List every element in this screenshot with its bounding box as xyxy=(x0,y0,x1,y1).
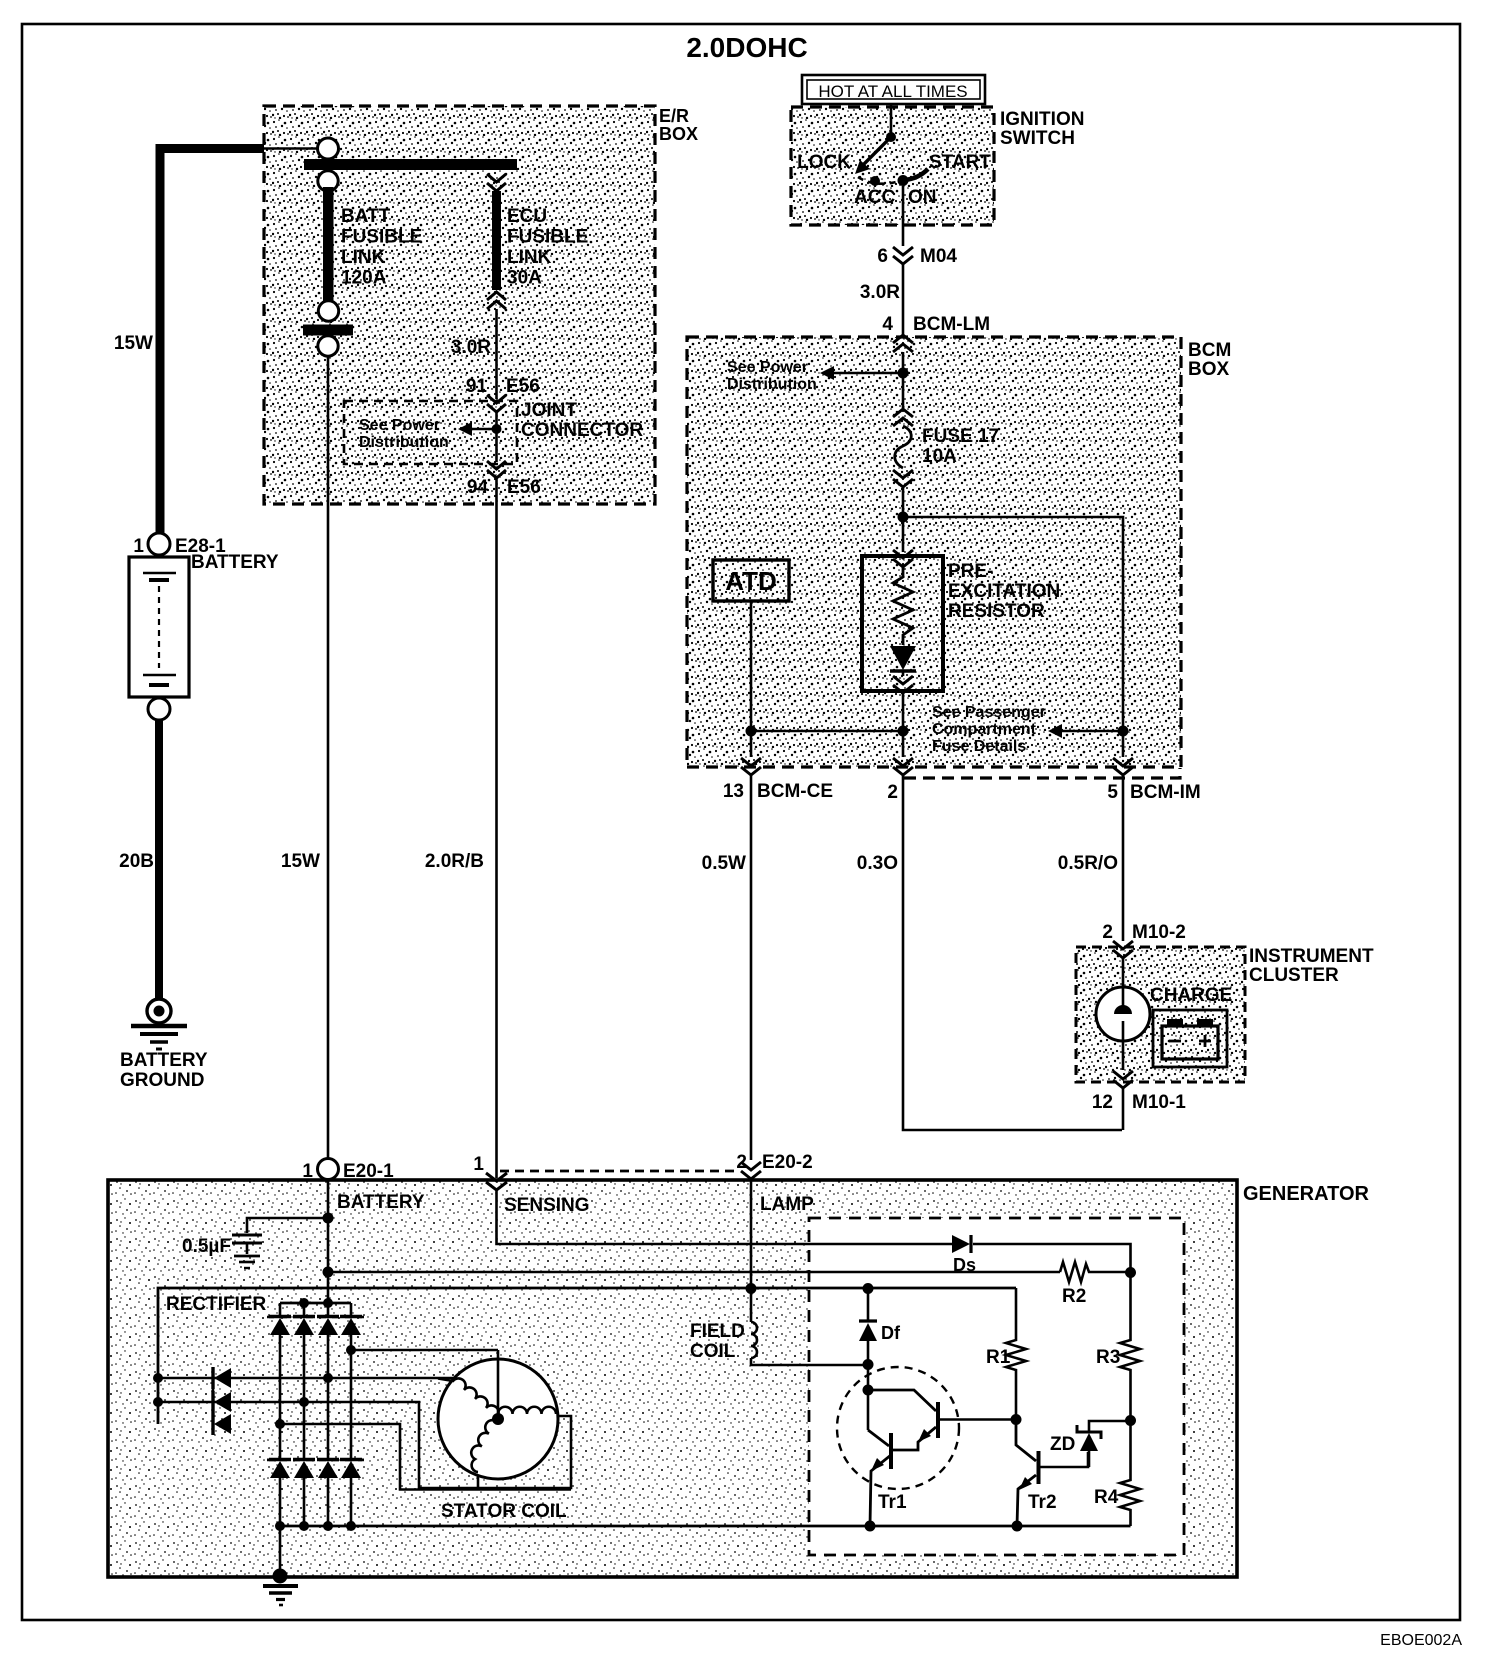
svg-text:91: 91 xyxy=(466,376,488,397)
svg-text:13: 13 xyxy=(723,781,744,802)
svg-text:94: 94 xyxy=(467,477,489,498)
terminal circle below BATT link xyxy=(318,301,338,321)
junction node (power dist tap) xyxy=(898,368,909,379)
ACC label xyxy=(854,187,895,208)
connector chevron above fuse xyxy=(893,409,913,426)
phase C line to stator winding 3 xyxy=(280,1424,571,1490)
wire label 15W (middle) xyxy=(281,851,320,872)
svg-text:R1: R1 xyxy=(986,1347,1011,1368)
wire 20B battery to ground (thick) xyxy=(155,720,163,999)
ON contact node xyxy=(898,175,909,186)
svg-text:BOX: BOX xyxy=(1188,359,1230,380)
pin labels 13 BCM-CE / 2 / 5 BCM-IM xyxy=(723,781,1201,803)
dashed travel arc LOCK-ACC-ON xyxy=(858,177,900,184)
LOCK label xyxy=(797,152,851,173)
Df label xyxy=(881,1323,901,1343)
FUSE 17 10A label xyxy=(922,426,999,467)
svg-text:2: 2 xyxy=(887,782,898,803)
HOT AT ALL TIMES box xyxy=(802,75,985,104)
diode trio D3 (phase C) xyxy=(213,1413,231,1435)
junction node Df column on bus xyxy=(863,1283,874,1294)
R3 label xyxy=(1096,1347,1120,1368)
svg-text:GENERATOR: GENERATOR xyxy=(1243,1183,1369,1205)
field coil xyxy=(751,1288,868,1365)
svg-text:12: 12 xyxy=(1092,1092,1113,1113)
svg-text:FUSE 17: FUSE 17 xyxy=(922,426,999,447)
BATT fusible link label xyxy=(341,206,422,289)
connector chevron pin 91 xyxy=(487,395,506,412)
svg-text:LOCK: LOCK xyxy=(797,152,851,173)
svg-text:START: START xyxy=(929,152,991,173)
svg-text:SENSING: SENSING xyxy=(504,1195,590,1216)
svg-text:BATTERY: BATTERY xyxy=(191,552,279,573)
resistor R2 xyxy=(1060,1262,1130,1282)
wire 15W down from E/R box to generator E20-1 xyxy=(327,357,330,1159)
wire M10-1 return down to corner xyxy=(1122,1088,1125,1130)
charge lamp symbol xyxy=(1096,987,1150,1041)
terminal circle below bus bar xyxy=(318,171,338,191)
stator centre node xyxy=(492,1413,504,1425)
BATTERY terminal label xyxy=(337,1192,425,1213)
svg-text:STATOR COIL: STATOR COIL xyxy=(441,1501,567,1522)
svg-text:Fuse Details: Fuse Details xyxy=(932,738,1026,755)
rectifier top diode bar (dashed tie) xyxy=(267,1316,364,1319)
svg-text:See Power: See Power xyxy=(359,417,440,434)
arrow to power distribution (E/R) xyxy=(458,422,497,436)
svg-text:Distribution: Distribution xyxy=(359,434,449,451)
generator box (shaded) xyxy=(108,1180,1237,1577)
joint connector label xyxy=(521,400,643,441)
ZD label xyxy=(1050,1434,1075,1455)
svg-text:M04: M04 xyxy=(920,246,957,267)
junction node R3/R4/ZD xyxy=(1125,1415,1136,1426)
wire 3.0R from M04 to BCM-LM xyxy=(902,264,905,334)
wire resistor box to pin 2 xyxy=(902,693,905,757)
resistor R3 xyxy=(1120,1272,1140,1420)
wire label 0.3O xyxy=(857,853,898,874)
svg-text:3.0R: 3.0R xyxy=(451,337,491,358)
svg-text:10A: 10A xyxy=(922,446,957,467)
terminal circle 1 E20-1 (battery terminal) xyxy=(318,1159,339,1180)
LAMP terminal label xyxy=(760,1194,814,1215)
ON label xyxy=(908,187,937,208)
rectifier bottom diode bar (dashed tie) xyxy=(267,1459,364,1462)
junction node Tr1 base feed xyxy=(863,1385,874,1396)
connector chevron 13 BCM-CE xyxy=(741,758,761,775)
generator label xyxy=(1243,1183,1369,1205)
svg-text:CONNECTOR: CONNECTOR xyxy=(521,420,643,441)
pin 91 E56 label xyxy=(466,376,540,397)
junction node in joint connector xyxy=(492,424,502,434)
RECTIFIER label xyxy=(166,1294,267,1315)
diode trio D2 (phase B) xyxy=(213,1391,231,1413)
svg-text:COIL: COIL xyxy=(690,1341,736,1362)
diode trio D1 (phase A) xyxy=(213,1367,231,1389)
stator winding 3 (lower left) xyxy=(471,1420,496,1472)
transistor Tr2 xyxy=(1016,1420,1088,1527)
svg-text:120A: 120A xyxy=(341,268,387,289)
svg-text:Tr2: Tr2 xyxy=(1028,1492,1057,1513)
svg-text:RESISTOR: RESISTOR xyxy=(948,601,1045,622)
wire label 3.0R xyxy=(860,282,900,303)
wire label 3.0R (E/R box) xyxy=(451,337,491,358)
svg-text:GROUND: GROUND xyxy=(120,1070,204,1091)
svg-text:0.5µF: 0.5µF xyxy=(182,1236,231,1257)
diode Df (cathode up) xyxy=(859,1288,877,1365)
svg-text:ACC: ACC xyxy=(854,187,895,208)
battery label xyxy=(191,552,279,573)
see passenger compartment fuse details label xyxy=(932,704,1046,755)
svg-text:R3: R3 xyxy=(1096,1347,1120,1368)
wire lamp down to M10-1 xyxy=(1122,1041,1125,1070)
transistor Tr1 xyxy=(868,1365,1016,1527)
START label xyxy=(929,152,991,173)
SENSING terminal label xyxy=(504,1195,590,1216)
svg-text:1: 1 xyxy=(473,1154,484,1175)
dashed connector line E20 xyxy=(500,1170,740,1173)
wire label 2.0R/B xyxy=(425,851,484,872)
svg-text:3.0R: 3.0R xyxy=(860,282,900,303)
junction node R1/Tr2 collector xyxy=(1011,1414,1022,1425)
resistor R4 xyxy=(1120,1420,1140,1526)
wire label 20B xyxy=(119,851,154,872)
junction nodes on bottom rail (Tr1, Tr2) xyxy=(865,1521,1023,1532)
wire 2.0R/B from E/R box down to generator sensing xyxy=(495,478,498,1178)
connector chevrons below ECU fusible link xyxy=(487,292,506,309)
wire BCM-LM down to junction xyxy=(902,352,905,408)
terminal circle battery negative xyxy=(148,698,170,720)
ATD box xyxy=(713,560,789,601)
svg-text:M10-1: M10-1 xyxy=(1132,1092,1186,1113)
svg-text:BCM: BCM xyxy=(1188,340,1231,361)
connector chevron lamp 2 E20-2 xyxy=(741,1162,761,1179)
wire from ATD down xyxy=(750,601,753,757)
svg-text:0.5R/O: 0.5R/O xyxy=(1058,853,1118,874)
junction node below fuse xyxy=(898,512,909,523)
svg-text:15W: 15W xyxy=(281,851,320,872)
connector chevron top of resistor box xyxy=(893,550,913,567)
connector chevron below fuse xyxy=(893,470,913,487)
junction node ATD line xyxy=(746,726,757,737)
svg-text:E/R: E/R xyxy=(659,106,689,126)
switch lever to LOCK xyxy=(855,137,891,174)
instrument cluster box (dashed, shaded) xyxy=(1076,947,1245,1082)
connector chevron M10-2 xyxy=(1113,941,1133,958)
svg-text:Df: Df xyxy=(881,1323,901,1343)
svg-text:E56: E56 xyxy=(506,376,540,397)
svg-text:EXCITATION: EXCITATION xyxy=(948,581,1060,602)
capacitor label 0.5uF xyxy=(182,1236,231,1257)
wire from ECU link down to joint connector xyxy=(495,309,498,399)
capacitor 0.5uF with ground xyxy=(232,1218,328,1268)
svg-text:Tr1: Tr1 xyxy=(878,1492,907,1513)
svg-text:0.5W: 0.5W xyxy=(702,853,746,874)
stator winding 2 (right) xyxy=(498,1407,556,1414)
bus bar (thick) in E/R box xyxy=(304,159,517,170)
wire branch right to BCM-IM leg xyxy=(903,517,1123,757)
svg-text:FUSIBLE: FUSIBLE xyxy=(341,227,422,248)
stator winding 1 (upper left) xyxy=(438,1378,499,1417)
svg-text:FIELD: FIELD xyxy=(690,1321,745,1342)
connector chevron bottom of resistor box xyxy=(893,676,913,693)
pin 94 E56 label xyxy=(467,477,541,498)
battery cell symbols xyxy=(143,573,176,685)
svg-text:20B: 20B xyxy=(119,851,154,872)
resistor R1 xyxy=(1006,1288,1026,1419)
ignition switch label xyxy=(1000,109,1084,149)
pin 1 label (sensing) xyxy=(473,1154,484,1175)
svg-text:ON: ON xyxy=(908,187,937,208)
pre-excitation resistor label xyxy=(948,561,1060,622)
svg-text:INSTRUMENT: INSTRUMENT xyxy=(1249,946,1374,967)
see power distribution label (E/R) xyxy=(359,417,449,451)
svg-text:2.0R/B: 2.0R/B xyxy=(425,851,484,872)
terminal circle 1 E28-1 (battery positive) xyxy=(148,533,170,555)
svg-text:2: 2 xyxy=(736,1152,747,1173)
svg-text:Distribution: Distribution xyxy=(727,376,817,393)
svg-text:4: 4 xyxy=(882,314,893,335)
svg-text:ATD: ATD xyxy=(725,566,777,596)
ACC contact node xyxy=(870,176,880,186)
terminal circle bottom xyxy=(318,336,338,356)
rectifier diode pair column 4 xyxy=(340,1303,362,1531)
svg-text:R2: R2 xyxy=(1062,1286,1086,1307)
transistor Tr1 (darlington) dashed circle xyxy=(837,1367,959,1489)
connector chevron pin 94 xyxy=(487,461,506,478)
wire 0.3O pin2 down and right to cluster return xyxy=(903,775,1122,1130)
BATT fusible link 120A (thick bar) xyxy=(323,187,334,301)
R1 label xyxy=(986,1347,1011,1368)
pin label 1 E20-1 xyxy=(302,1161,394,1182)
svg-text:EBOE002A: EBOE002A xyxy=(1380,1632,1462,1649)
svg-text:CLUSTER: CLUSTER xyxy=(1249,965,1339,986)
svg-text:BCM-CE: BCM-CE xyxy=(757,781,833,802)
wire inside joint connector xyxy=(495,412,498,462)
BCM box (dashed, shaded) xyxy=(687,337,1181,778)
svg-text:HOT AT ALL TIMES: HOT AT ALL TIMES xyxy=(818,82,967,101)
svg-text:FUSIBLE: FUSIBLE xyxy=(507,227,588,248)
junction node capacitor tap xyxy=(323,1213,334,1224)
wire battery node through R2 xyxy=(328,1271,1060,1274)
ECU fusible link label xyxy=(507,206,588,289)
pin 2 M10-2 label xyxy=(1102,922,1185,943)
svg-text:LINK: LINK xyxy=(507,247,552,268)
junction node R2 line tap xyxy=(323,1267,334,1278)
svg-text:M10-2: M10-2 xyxy=(1132,922,1186,943)
Tr2 label xyxy=(1028,1492,1057,1513)
svg-text:1: 1 xyxy=(133,536,144,557)
rectifier diode pair column 2 xyxy=(293,1303,315,1531)
R4 label xyxy=(1094,1487,1119,1508)
generator ground xyxy=(263,1526,298,1605)
pin 12 M10-1 label xyxy=(1092,1092,1186,1113)
connector chevron 5 BCM-IM xyxy=(1113,758,1133,775)
field coil label xyxy=(690,1321,745,1362)
wire ATD junction to pin2 line xyxy=(751,730,903,733)
diode in resistor box (cathode down) xyxy=(890,646,916,676)
junction node lamp wire to bus xyxy=(746,1179,757,1294)
svg-text:0.3O: 0.3O xyxy=(857,853,898,874)
connector chevrons above ECU fusible link xyxy=(487,174,506,191)
svg-text:5: 5 xyxy=(1107,782,1118,803)
rectifier left rail nodes xyxy=(153,1373,163,1407)
Ds label xyxy=(953,1255,976,1275)
phase B line to stator winding 2 xyxy=(158,1402,571,1488)
zener diode ZD xyxy=(1077,1421,1131,1467)
voltage regulator dashed box xyxy=(809,1218,1184,1555)
wire into charge lamp xyxy=(1122,958,1125,988)
wire battery terminal into generator xyxy=(327,1179,330,1304)
svg-text:LAMP: LAMP xyxy=(760,1194,814,1215)
svg-text:See Power: See Power xyxy=(727,359,808,376)
junction node BCM-IM leg xyxy=(1118,726,1129,737)
wire label 15W (left battery feed) xyxy=(114,333,153,354)
switch pivot node xyxy=(886,132,896,142)
svg-text:SWITCH: SWITCH xyxy=(1000,128,1075,149)
rectifier diode pair column 3 xyxy=(317,1303,339,1531)
wire Ds to corner and down xyxy=(973,1244,1131,1272)
wire sensing to Ds diode xyxy=(497,1190,953,1244)
arrow to passenger compartment fuse details xyxy=(1048,724,1123,738)
E/R box (dashed, shaded) xyxy=(264,106,655,504)
svg-text:1: 1 xyxy=(302,1161,313,1182)
battery ground symbol xyxy=(131,999,187,1049)
battery warning icon xyxy=(1153,1010,1227,1067)
battery box xyxy=(129,557,189,697)
svg-text:E56: E56 xyxy=(507,477,541,498)
svg-text:IGNITION: IGNITION xyxy=(1000,109,1084,130)
svg-text:BATTERY: BATTERY xyxy=(120,1050,208,1071)
rectifier outline / lamp bus line xyxy=(158,1288,1016,1424)
svg-text:BATT: BATT xyxy=(341,206,391,227)
pin 4 BCM-LM label xyxy=(882,314,990,335)
Tr2 emitter arrow xyxy=(1019,1477,1032,1490)
ignition switch box (dashed, shaded) xyxy=(791,107,994,225)
E/R box label xyxy=(659,106,698,144)
svg-text:15W: 15W xyxy=(114,333,153,354)
joint connector dashed box xyxy=(344,401,517,464)
wire 0.5R/O BCM-IM to cluster xyxy=(1122,775,1125,941)
svg-text:BCM-IM: BCM-IM xyxy=(1130,782,1201,803)
svg-text:R4: R4 xyxy=(1094,1487,1119,1508)
diode Ds xyxy=(952,1235,971,1253)
junction node field coil / Df xyxy=(863,1359,874,1370)
stator coil label xyxy=(441,1501,567,1522)
CHARGE label xyxy=(1150,985,1232,1006)
rectifier diode pair column 1 xyxy=(269,1303,291,1531)
svg-text:CHARGE: CHARGE xyxy=(1150,985,1232,1006)
wire fuse to junction xyxy=(902,487,905,552)
resistor zigzag (pre-excitation) xyxy=(893,567,913,645)
svg-text:ECU: ECU xyxy=(507,206,547,227)
connector chevron BCM-LM (entering BCM box) xyxy=(893,335,913,352)
svg-text:6: 6 xyxy=(877,246,888,267)
connector chevron M10-1 xyxy=(1113,1071,1133,1088)
svg-text:RECTIFIER: RECTIFIER xyxy=(166,1294,267,1315)
Tr1 emitter arrows xyxy=(871,1429,931,1471)
terminal circle top of BATT fusible link xyxy=(318,138,339,159)
connector 6 M04 xyxy=(893,247,913,264)
phase A line to stator winding 1 xyxy=(158,1377,455,1380)
wire label 0.5W xyxy=(702,853,746,874)
stator coil circle xyxy=(438,1350,558,1479)
svg-text:E20-2: E20-2 xyxy=(762,1152,813,1173)
svg-text:30A: 30A xyxy=(507,268,542,289)
wire label 0.5R/O xyxy=(1058,853,1118,874)
arrow to power distribution (BCM) xyxy=(820,366,903,380)
svg-text:BCM-LM: BCM-LM xyxy=(913,314,990,335)
svg-text:E20-1: E20-1 xyxy=(343,1161,394,1182)
instrument cluster label xyxy=(1249,946,1374,986)
svg-text:Compartment: Compartment xyxy=(932,721,1037,738)
connector chevron sensing pin 1 xyxy=(486,1173,507,1190)
junction node pin 2 line xyxy=(898,726,909,737)
short thick bar xyxy=(303,325,353,336)
centre tap line to stator xyxy=(351,1349,498,1352)
battery ground label xyxy=(120,1050,208,1091)
diode trio dashed tie xyxy=(212,1372,215,1430)
svg-text:2: 2 xyxy=(1102,922,1113,943)
svg-text:JOINT: JOINT xyxy=(521,400,577,421)
R2 label xyxy=(1062,1286,1086,1307)
connector chevron 2 xyxy=(893,758,913,775)
generator bottom rail xyxy=(280,1525,1131,1528)
pin 2 E20-2 label xyxy=(736,1152,812,1173)
fuse 17 symbol xyxy=(895,426,912,468)
svg-text:BATTERY: BATTERY xyxy=(337,1192,425,1213)
BCM box label xyxy=(1188,340,1231,380)
see power distribution label (BCM) xyxy=(727,359,817,393)
rectifier top rail xyxy=(280,1298,351,1308)
wire from hot box into ignition switch xyxy=(890,104,893,136)
svg-text:BOX: BOX xyxy=(659,124,698,144)
svg-text:2.0DOHC: 2.0DOHC xyxy=(686,32,807,63)
wiper arc ON to START xyxy=(904,169,928,180)
svg-text:LINK: LINK xyxy=(341,247,386,268)
wire from ON down to M04 xyxy=(902,186,905,246)
pre-excitation resistor box xyxy=(862,556,943,691)
wire 0.5W BCM-CE to generator lamp terminal xyxy=(750,775,753,1160)
svg-text:ZD: ZD xyxy=(1050,1434,1075,1455)
junction node Ds/R2 xyxy=(1125,1267,1136,1278)
Tr1 label xyxy=(878,1492,907,1513)
svg-text:See Passenger: See Passenger xyxy=(932,704,1046,721)
pin label 1 E28-1 xyxy=(133,536,226,557)
svg-text:PRE-: PRE- xyxy=(948,561,993,582)
wire thick battery feed from battery up to E/R box xyxy=(160,149,317,534)
ECU fusible link 30A (thick bar) xyxy=(492,191,501,290)
